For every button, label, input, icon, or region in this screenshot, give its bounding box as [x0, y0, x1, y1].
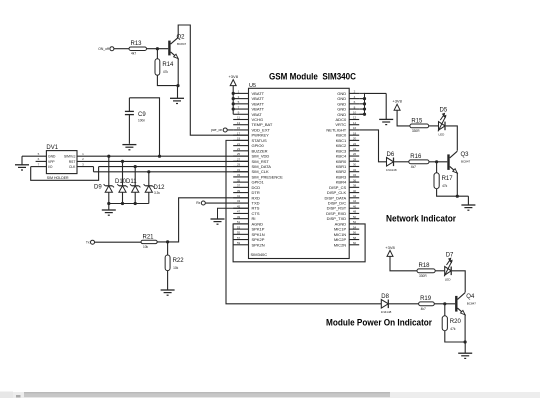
- svg-text:Q4: Q4: [466, 294, 475, 300]
- wire +3V8 to R18: [390, 256, 417, 270]
- svg-text:R22: R22: [173, 258, 185, 264]
- svg-text:SPK2N: SPK2N: [252, 242, 265, 247]
- svg-text:RST: RST: [69, 160, 76, 164]
- U5 pin 41 RXD: [233, 194, 260, 200]
- svg-text:U5: U5: [249, 83, 256, 89]
- svg-text:59: 59: [237, 241, 241, 245]
- U5 pin 44 DISP_D/C: [328, 199, 359, 205]
- wire I/O under-route to SIM_DATA: [31, 167, 99, 181]
- svg-text:20: 20: [353, 137, 357, 141]
- svg-text:D6: D6: [387, 152, 395, 158]
- ground RTS ground: [211, 219, 225, 224]
- ground DV1 ground: [15, 165, 29, 170]
- DV1 pin 3 CLK: [77, 162, 94, 166]
- wire D11 bottom: [134, 192, 136, 203]
- svg-text:Module Power On Indicator: Module Power On Indicator: [326, 318, 432, 328]
- resistor R22: [165, 255, 184, 271]
- svg-text:R17: R17: [442, 176, 454, 182]
- svg-text:LED: LED: [439, 132, 446, 136]
- svg-text:37: 37: [237, 184, 241, 188]
- U5 pin 4 GND: [337, 95, 359, 101]
- capacitor C9: [125, 98, 146, 144]
- junction VBATT pin 5: [232, 102, 235, 105]
- svg-text:55: 55: [237, 231, 241, 235]
- svg-text:4k7: 4k7: [411, 165, 416, 169]
- junction D10 top: [121, 160, 124, 163]
- wire R13 to Q2 base: [147, 48, 169, 50]
- U5 pin 30 KBR1: [336, 163, 359, 169]
- wire GND pin 8 link: [359, 108, 364, 110]
- U5 pin 53 SPK1P: [233, 225, 265, 231]
- wire R16 to Q3 base: [429, 161, 447, 163]
- svg-text:53: 53: [237, 225, 241, 229]
- U5 pin 20 KBC1: [336, 137, 359, 143]
- zener diode D11: [130, 184, 140, 192]
- U5 pin 5 VBATT: [233, 100, 264, 106]
- svg-text:I/O: I/O: [48, 165, 53, 169]
- U5 pin 2 GND: [337, 90, 359, 96]
- resistor R15: [410, 118, 429, 133]
- terminal pwr_on: [211, 128, 227, 132]
- svg-text:R18: R18: [419, 263, 431, 269]
- wire D8 to R19: [389, 303, 419, 305]
- wire Q2 emitter down: [177, 59, 179, 86]
- wire Tx to R21: [95, 241, 142, 243]
- U5 pin 23 BUZZER: [233, 147, 267, 153]
- transistor Q4: [455, 293, 476, 315]
- svg-text:Rx: Rx: [196, 201, 200, 205]
- DV1 pin 5 GND: [22, 152, 46, 156]
- svg-text:23: 23: [237, 147, 241, 151]
- svg-text:+3V8: +3V8: [392, 99, 402, 104]
- svg-text:1N4148: 1N4148: [381, 310, 392, 314]
- U5 pin 21 GPIO0: [233, 142, 264, 148]
- wire ON_off to R13: [114, 48, 129, 50]
- junction D9 top: [107, 155, 110, 158]
- svg-text:47k: 47k: [163, 70, 169, 74]
- U5 pin 46 DISP_RST: [327, 204, 360, 210]
- svg-text:R15: R15: [411, 118, 423, 124]
- wire STATUS to D8: [226, 140, 381, 303]
- resistor R20: [442, 316, 461, 331]
- svg-text:4k7: 4k7: [131, 52, 136, 56]
- svg-text:58: 58: [353, 236, 357, 240]
- svg-text:D8: D8: [381, 294, 389, 300]
- svg-text:SIM HOLDER: SIM HOLDER: [47, 176, 69, 180]
- junction D12 top: [147, 170, 150, 173]
- svg-text:SIMVcc: SIMVcc: [64, 155, 76, 159]
- resistor R14: [155, 59, 174, 75]
- wire SIM_RST line: [77, 160, 249, 162]
- wire SIM_VDD line: [77, 155, 249, 157]
- DV1 pin 6 VPP: [36, 157, 47, 161]
- svg-text:26: 26: [353, 152, 357, 156]
- wire C9 top to SIM_VDD: [129, 98, 159, 156]
- terminal ON_off input: [98, 47, 114, 51]
- U5 pin 42 DISP_DATA: [325, 194, 360, 200]
- svg-text:60: 60: [353, 241, 357, 245]
- U5 pin 33 SIM_PRESENCE: [233, 173, 283, 179]
- junction D9 bottom rail: [107, 202, 110, 205]
- wire Rx to TXD: [205, 202, 248, 204]
- wire to network ground: [467, 196, 469, 205]
- power flag VBATT supply +3V8: [228, 74, 238, 86]
- svg-text:+3V8: +3V8: [228, 74, 238, 79]
- svg-text:18: 18: [353, 131, 357, 135]
- U5 pin 3 VBATT: [233, 95, 264, 101]
- wire D9 to SIM line: [108, 156, 110, 186]
- junction D11 bottom rail: [134, 202, 137, 205]
- power flag network LED supply +3V8: [392, 99, 402, 111]
- svg-text:47k: 47k: [450, 327, 456, 331]
- svg-text:LED: LED: [445, 277, 452, 281]
- svg-text:56: 56: [353, 231, 357, 235]
- wire +3V8 to R15: [397, 110, 410, 126]
- wire SIM_DATA line: [99, 166, 249, 168]
- svg-text:48: 48: [353, 210, 357, 214]
- svg-text:GND: GND: [48, 155, 56, 159]
- wire R14 bottom: [157, 75, 178, 85]
- wire GND pin 10 link: [359, 113, 364, 115]
- svg-text:D7: D7: [446, 252, 454, 258]
- U5 pin 14 VRTC: [335, 121, 359, 127]
- wire D11 to SIM line: [134, 167, 136, 186]
- svg-text:42: 42: [353, 194, 357, 198]
- wire emitter to ground: [177, 86, 179, 99]
- resistor R13: [129, 41, 147, 56]
- svg-text:SIM340C: SIM340C: [251, 252, 268, 257]
- scrollbar track: [0, 392, 540, 398]
- wire R18 to D7: [435, 270, 445, 272]
- svg-text:DV1: DV1: [46, 145, 58, 151]
- svg-text:R21: R21: [143, 234, 155, 240]
- ground zener rail ground: [102, 210, 116, 215]
- svg-text:22: 22: [353, 142, 357, 146]
- U5 pin 1 VBATT: [233, 90, 264, 96]
- wire VBATT bus: [232, 86, 234, 115]
- U5 pin 29 SIM_DATA: [233, 163, 271, 169]
- U5 pin 49 RI: [233, 215, 255, 221]
- wire zener common rail: [109, 203, 149, 205]
- U5 pin 8 GND: [337, 105, 359, 111]
- svg-text:36: 36: [353, 178, 357, 182]
- svg-text:24: 24: [353, 147, 357, 151]
- wire D12 bottom: [148, 192, 150, 203]
- wire NETLIGHT to D6: [359, 130, 386, 162]
- svg-text:28: 28: [353, 157, 357, 161]
- U5 pin 25 SIM_VDD: [233, 152, 269, 158]
- svg-text:R20: R20: [450, 319, 462, 325]
- svg-text:47: 47: [237, 210, 241, 214]
- wire GND pin 6 link: [359, 103, 364, 105]
- resistor R18: [417, 263, 435, 278]
- wire R20 bottom: [445, 331, 465, 342]
- svg-text:1N4148: 1N4148: [386, 168, 397, 172]
- svg-text:4k7: 4k7: [421, 307, 426, 311]
- svg-text:13: 13: [237, 121, 241, 125]
- svg-text:D10D11: D10D11: [115, 179, 137, 185]
- U5 pin 32 KBR2: [336, 168, 359, 174]
- svg-text:BC847: BC847: [467, 302, 477, 306]
- svg-text:47k: 47k: [442, 184, 448, 188]
- U5 pin 18 KBC0: [336, 131, 359, 137]
- junction Q3 emitter node: [456, 195, 459, 198]
- svg-text:100n: 100n: [138, 119, 145, 123]
- U5 pin 40 DISP_CLK: [327, 189, 359, 195]
- svg-text:GSM Module SIM340C: GSM Module SIM340C: [269, 72, 356, 82]
- svg-text:pwr_on: pwr_on: [211, 128, 222, 132]
- junction R20 top: [443, 302, 446, 305]
- terminal Tx: [86, 240, 95, 244]
- wire DV1 GND down: [21, 156, 23, 164]
- ground Q2 emitter ground: [170, 98, 184, 103]
- U5 pin 10 GND: [337, 110, 359, 116]
- wire GND bus: [359, 93, 364, 114]
- wire D10 bottom: [122, 192, 124, 203]
- ground power indicator ground: [458, 353, 472, 358]
- svg-text:34: 34: [353, 173, 357, 177]
- U5 pin 22 KBC2: [336, 142, 359, 148]
- wire Q4 emitter down: [464, 315, 466, 343]
- svg-text:Q3: Q3: [461, 152, 470, 158]
- wire R22 to ground: [167, 271, 169, 290]
- svg-text:BC847: BC847: [461, 160, 471, 164]
- wire CLK jog to SIM_CLK line: [93, 167, 95, 172]
- resistor R21: [141, 234, 157, 249]
- wire R19 to Q4 base: [434, 303, 455, 305]
- zener diode D9: [104, 184, 114, 192]
- U5 pin 45 RTS: [233, 204, 260, 210]
- wire R15 to D5: [429, 125, 439, 127]
- svg-text:15: 15: [237, 126, 241, 130]
- wire pwr_on to VDD_EXT: [227, 129, 233, 131]
- U5 pin 51 AGND: [233, 220, 263, 226]
- junction GND bus pin 8: [363, 107, 366, 110]
- U5 pin 57 SPK2P: [233, 236, 265, 242]
- wire D9 bottom: [108, 192, 110, 203]
- scrollbar thumb: [24, 392, 390, 397]
- svg-text:330R: 330R: [419, 274, 427, 278]
- U5 pin 9 VBAT: [233, 110, 262, 116]
- scrollbar corner: [0, 392, 13, 399]
- terminal Rx: [196, 201, 205, 205]
- svg-text:MIC2N: MIC2N: [334, 242, 347, 247]
- svg-text:10k: 10k: [143, 245, 149, 249]
- wire D5 to Q3 collector: [446, 126, 458, 151]
- U5 pin 35 GPIO1: [233, 178, 264, 184]
- junction D10 bottom rail: [121, 202, 124, 205]
- resistor R19: [419, 296, 435, 311]
- svg-text:C9: C9: [138, 112, 146, 118]
- resistor R17: [434, 173, 453, 189]
- wire R14 top stem: [156, 49, 158, 59]
- diode D6: [386, 152, 397, 172]
- svg-text:330R: 330R: [412, 129, 420, 133]
- svg-text:10: 10: [353, 110, 357, 114]
- junction Q2 emitter node: [176, 84, 179, 87]
- svg-text:40: 40: [353, 189, 357, 193]
- U5 pin 58 MIC2P: [334, 236, 359, 242]
- U5 pin 6 GND: [337, 100, 359, 106]
- U5 pin 54 MIC1P: [334, 225, 359, 231]
- svg-text:3.3v: 3.3v: [154, 191, 160, 195]
- zener diode D12: [144, 184, 154, 192]
- U5 pin 39 DTR: [233, 189, 260, 195]
- svg-text:54: 54: [353, 225, 357, 229]
- svg-text:D5: D5: [440, 107, 448, 113]
- wire R20 top stem: [444, 304, 446, 316]
- LED D5: [438, 107, 448, 136]
- wire D6 to R16: [394, 161, 409, 163]
- svg-text:16: 16: [353, 126, 357, 130]
- svg-text:R14: R14: [162, 62, 174, 68]
- svg-text:R16: R16: [410, 154, 422, 160]
- U5 pin 59 SPK2N: [233, 241, 265, 247]
- U5 pin 37 DCD: [233, 184, 260, 190]
- wire D12 to SIM line: [148, 172, 150, 186]
- U5 pin 60 MIC2N: [334, 241, 359, 247]
- svg-text:D9: D9: [94, 185, 102, 191]
- U5 pin 36 KBR4: [336, 178, 359, 184]
- wire R17 bottom: [437, 189, 469, 197]
- U5 pin 52 AGND: [335, 220, 360, 226]
- wire R22 top stem: [167, 242, 169, 255]
- U5 pin 12 ADC0: [336, 116, 360, 122]
- svg-text:38: 38: [353, 184, 357, 188]
- transistor Q2: [168, 35, 186, 59]
- junction GND bus pin 6: [363, 102, 366, 105]
- svg-text:21: 21: [237, 142, 241, 146]
- junction GND bus pin 4: [363, 97, 366, 100]
- svg-text:25: 25: [237, 152, 241, 156]
- svg-text:+3V8: +3V8: [385, 245, 395, 250]
- U5 pin 55 SPK1N: [233, 231, 265, 237]
- wire to power indicator ground: [464, 342, 466, 353]
- svg-text:11: 11: [237, 116, 240, 120]
- wire GND pin 4 link: [359, 98, 364, 100]
- svg-text:39: 39: [237, 189, 241, 193]
- power flag power LED supply +3V8: [385, 245, 395, 257]
- U5 pin 48 DISP_RXD: [326, 210, 359, 216]
- wire AGND loop: [233, 224, 365, 262]
- svg-text:Network Indicator: Network Indicator: [386, 214, 456, 224]
- svg-text:10k: 10k: [173, 266, 179, 270]
- wire D7 to Q4 collector: [452, 271, 465, 293]
- svg-text:CLK: CLK: [69, 165, 76, 169]
- svg-text:VPP: VPP: [48, 160, 55, 164]
- wire RTS to ground: [218, 208, 249, 219]
- svg-text:12: 12: [353, 116, 357, 120]
- junction GND bus pin 10: [363, 113, 366, 116]
- U5 pin 7 VBATT: [233, 105, 264, 111]
- svg-text:50: 50: [353, 215, 357, 219]
- transistor Q3: [447, 151, 470, 173]
- U5 pin 38 DISP_CS: [329, 184, 359, 190]
- IC U5 SIM340C module: [249, 83, 350, 259]
- wire Q3 emitter down: [456, 173, 458, 196]
- svg-text:14: 14: [353, 121, 357, 125]
- svg-text:30: 30: [353, 163, 357, 167]
- svg-text:49: 49: [237, 215, 241, 219]
- svg-text:44: 44: [353, 199, 357, 203]
- svg-text:R19: R19: [420, 296, 432, 302]
- junction VBATT pin 1: [232, 92, 235, 95]
- wire Q2 collector to PWRKEY: [178, 25, 248, 135]
- svg-text:ON_off: ON_off: [98, 47, 109, 51]
- junction C9 at SIM_VDD: [158, 155, 161, 158]
- svg-text:46: 46: [353, 204, 357, 208]
- wire rail to ground: [108, 204, 110, 210]
- wire SIM_CLK line: [94, 171, 249, 173]
- U5 pin 17 PWRKEY: [233, 131, 269, 137]
- U5 pin 27 SIM_RST: [233, 157, 269, 163]
- U5 pin 50 DISP_TXD: [327, 215, 360, 221]
- U5 pin 31 SIM_CLK: [233, 168, 269, 174]
- DV1 pin 7 I/O: [31, 162, 47, 166]
- junction D11 top: [134, 165, 137, 168]
- U5 pin 26 KBC4: [336, 152, 359, 158]
- ground module ground: [379, 119, 393, 124]
- U5 pin 13 TEMP_BAT: [233, 121, 273, 127]
- U5 pin 19 STATUS: [233, 137, 267, 143]
- junction VBATT pin 3: [232, 97, 235, 100]
- svg-text:33: 33: [237, 173, 241, 177]
- svg-text:32: 32: [353, 168, 357, 172]
- diode D8: [381, 294, 392, 314]
- wire R21 to RXD: [157, 198, 248, 242]
- LED D7: [444, 252, 454, 281]
- ground R22 ground: [161, 290, 175, 295]
- ground network indicator ground: [461, 205, 475, 210]
- svg-text:35: 35: [237, 178, 241, 182]
- junction R17 top: [435, 160, 438, 163]
- junction VBATT pin 7: [232, 107, 235, 110]
- U5 pin 43 TXD: [233, 199, 259, 205]
- junction R22 top: [166, 240, 169, 243]
- wire D10 to SIM line: [122, 161, 124, 185]
- svg-text:Tx: Tx: [86, 240, 90, 244]
- svg-text:BC847: BC847: [177, 42, 187, 46]
- U5 pin 34 KBR3: [336, 173, 359, 179]
- U5 pin 56 MIC1N: [334, 231, 359, 237]
- junction R14 top: [156, 47, 159, 50]
- U5 pin 24 KBC3: [336, 147, 359, 153]
- wire R17 top stem: [436, 162, 438, 173]
- junction Q4 emitter node: [464, 340, 467, 343]
- connector DV1 SIM holder: [46, 145, 77, 180]
- ground C9 ground: [122, 145, 136, 150]
- U5 pin 11 VCHG: [233, 116, 263, 122]
- zener diode D10: [117, 184, 127, 192]
- svg-text:57: 57: [237, 236, 241, 240]
- U5 pin 15 VDD_EXT: [233, 126, 270, 132]
- U5 pin 16 NETLIGHT: [326, 126, 359, 132]
- resistor R16: [409, 154, 429, 169]
- svg-text:R13: R13: [131, 41, 143, 47]
- U5 pin 28 KBR0: [336, 157, 359, 163]
- U5 pin 47 CTS: [233, 210, 260, 216]
